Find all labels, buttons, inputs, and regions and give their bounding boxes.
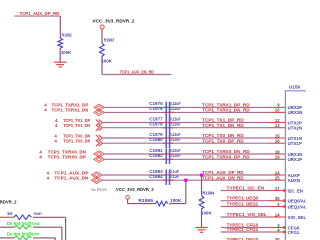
svg-text:4: 4	[39, 155, 42, 160]
page ref 4 for TCP1_TXRX1_DP	[44, 103, 47, 108]
capacitor C1975 / C1976	[166, 102, 171, 117]
wire TCP1_TX1_DP to cap C1977	[102, 122, 166, 124]
pin bubble 4	[283, 231, 286, 234]
pin name I2C_EN	[288, 188, 303, 193]
cap pin stubs right C1975/C1976	[170, 107, 173, 112]
wire TCP1_TXRX1_DP to cap C1975	[104, 106, 165, 108]
svg-text:TYPEC1_CFG1: TYPEC1_CFG1	[227, 227, 259, 232]
net label TCP1_TX1_DP	[63, 118, 90, 123]
svg-text:4: 4	[39, 149, 42, 154]
svg-text:TCP1_TXRX0_DP: TCP1_TXRX0_DP	[48, 155, 86, 160]
net label TCP1_TX1_DP_RD	[202, 118, 244, 123]
cap pin stubs right C1981/C1982	[170, 154, 173, 159]
svg-text:VIO_SEL: VIO_SEL	[288, 215, 306, 220]
capacitor C1979 / C1980	[166, 132, 171, 148]
annotation To PCH	[91, 187, 107, 192]
capacitor C1977 / C1978	[166, 117, 171, 133]
pin number 10	[275, 108, 280, 113]
net label TCP1_TXRX0_DN	[48, 149, 87, 154]
svg-text:TCP1_TXRX1_DN_RD: TCP1_TXRX1_DN_RD	[202, 108, 250, 113]
svg-text:TCP1_TX0_DP_RD: TCP1_TX0_DP_RD	[202, 138, 244, 143]
net label TCP1_TXRX0_DP	[48, 155, 86, 160]
page ref 4 for TCP1_TXRX0_DP	[39, 155, 42, 160]
wire left to R1997	[0, 216, 14, 218]
svg-text:35: 35	[275, 196, 280, 201]
svg-text:100K: 100K	[61, 50, 72, 55]
svg-text:TCP1_TXRX0_DP_RD: TCP1_TXRX0_DP_RD	[202, 154, 250, 159]
pin stub 16	[270, 142, 286, 144]
port symbol TCP1_TXRX0_DN	[94, 151, 105, 158]
ref C1978	[149, 122, 163, 127]
wire TCP1_TXRX0_DN to cap C1981	[104, 153, 165, 155]
svg-text:13: 13	[275, 123, 280, 128]
net label TCP1_AUX_DP	[54, 170, 88, 175]
pin stub 19	[270, 158, 286, 160]
pin number 2	[277, 202, 280, 207]
wire AUX_DP down to R1994	[201, 175, 203, 196]
net label TYPEC1_UEQ0	[227, 196, 259, 201]
svg-text:R1995: R1995	[138, 198, 153, 203]
net label TCP1_TX0_DP_RD	[202, 138, 244, 143]
pin name URX1N	[288, 152, 303, 157]
svg-text:VCC_3V3_RDVR_2: VCC_3V3_RDVR_2	[0, 200, 17, 205]
net label TCP1_TX1_DN	[63, 123, 91, 128]
value 100K of R1995	[170, 198, 182, 203]
net label TCP1_TXRX1_DN_RD	[202, 108, 250, 113]
value 100K of R1994	[201, 210, 212, 215]
port symbol TCP1_TX1_DN	[96, 125, 103, 131]
value 1K of R1997	[7, 211, 13, 216]
svg-text:4: 4	[54, 139, 57, 144]
capacitor C1981 / C1982	[166, 148, 171, 164]
wire R1983 down	[101, 58, 103, 75]
svg-text:TCP1_AUX_DN: TCP1_AUX_DN	[54, 176, 89, 181]
port symbol TCP1_TXRX1_DP	[94, 104, 105, 111]
pin stub 15	[270, 137, 286, 139]
svg-text:TCP1_TXRX0_DN: TCP1_TXRX0_DN	[48, 149, 87, 154]
pin name CFG0	[288, 225, 300, 230]
svg-text:TCP1_AUX_DN_RD: TCP1_AUX_DN_RD	[120, 70, 155, 75]
svg-text:C1980: C1980	[149, 137, 163, 142]
net label TCP1_TX0_DP	[63, 139, 90, 144]
junction dot on TCP1_AUX_DN	[184, 178, 188, 182]
net label TYPEC1_CFG1	[227, 227, 259, 232]
wire left to R2000	[0, 237, 14, 239]
pin number 25	[275, 176, 280, 181]
pin number 3	[277, 223, 280, 228]
op-amp U159 box	[285, 91, 310, 240]
junction dot on TCP1_AUX_DP	[200, 173, 204, 177]
wire VCC to R1983	[101, 29, 103, 43]
svg-text:TYPEC1_VIO_SEL: TYPEC1_VIO_SEL	[227, 212, 267, 217]
wire left to R1998	[0, 226, 14, 228]
power net VCC_3V3_RDVR_2 (left, clipped)	[0, 200, 17, 205]
port symbol TCP1_AUX_DN	[91, 177, 102, 184]
net label TCP1_AUX_DP_RD	[20, 11, 60, 16]
wire TYPEC1_CFG1	[221, 231, 270, 233]
wire R1982 to ground	[59, 49, 61, 62]
svg-text:4: 4	[44, 108, 47, 113]
svg-text:4: 4	[55, 123, 58, 128]
pin stub 14	[270, 216, 286, 218]
page ref 4 for TCP1_AUX_DN	[47, 176, 50, 181]
pin bubble 3	[283, 226, 286, 229]
ref C1979	[149, 132, 163, 137]
wire R1994 to ground	[201, 210, 203, 227]
svg-text:TCP1_TX0_DP: TCP1_TX0_DP	[63, 139, 90, 144]
port symbol TCP1_TX0_DP	[96, 140, 103, 146]
pin number 17	[275, 186, 280, 191]
wire R1997 down	[65, 217, 67, 240]
svg-text:VCC_3V3_RDVR_2: VCC_3V3_RDVR_2	[93, 19, 136, 24]
value 0.1uF of C1983	[170, 169, 179, 174]
resistor R1995	[138, 198, 167, 206]
page ref 4 for TCP1_TXRX1_DN	[44, 108, 47, 113]
pin name URX2P	[288, 105, 303, 110]
pin stub 17	[270, 190, 284, 192]
port symbol TCP1_TX0_DN	[96, 135, 103, 141]
wire TCP1_TXRX0_DP_RD row	[170, 158, 269, 160]
svg-text:URX1N: URX1N	[288, 152, 303, 157]
pin name AUXP	[288, 173, 300, 178]
pin stub 13	[270, 127, 286, 129]
wire TCP1_TX1_DN to cap C1978	[102, 127, 166, 129]
pin number 12	[275, 118, 280, 123]
cap pin stubs right C1977/C1978	[170, 123, 173, 128]
power symbol circle (bottom)	[126, 195, 130, 199]
ref C1983	[149, 169, 163, 174]
cap pin stubs C1983/C1984	[163, 175, 174, 180]
svg-text:0.22uF: 0.22uF	[170, 148, 181, 153]
wire R2000 right	[33, 237, 55, 239]
page ref 4 for TCP1_TX0_DN	[54, 133, 57, 138]
wire VCC to R1995	[128, 199, 156, 203]
net label TCP1_TXRX1_DN	[52, 108, 89, 113]
wire TCP1_AUX_DN to cap C1984	[102, 179, 166, 181]
svg-text:19: 19	[275, 155, 280, 160]
pin stub 35	[270, 200, 284, 202]
pin name VIO_SEL	[288, 215, 307, 220]
cap pin stubs C1981/C1982	[163, 154, 174, 159]
svg-text:R1997: R1997	[34, 211, 43, 216]
port symbol TCP1_TXRX1_DN	[94, 109, 105, 116]
wire TCP1_AUX_DN_RD row	[170, 179, 269, 181]
net label TYPEC1_DEG0 (clipped)	[227, 237, 259, 240]
net label TCP1_TX0_DN_RD	[202, 133, 244, 138]
wire TCP1_TX0_DN to cap C1979	[102, 137, 166, 139]
svg-text:TCP1_TXRX0_DN_RD: TCP1_TXRX0_DN_RD	[202, 149, 250, 154]
svg-text:100K: 100K	[170, 198, 182, 203]
ref C1982	[149, 153, 163, 158]
value 0.22uF of C1978	[170, 122, 181, 127]
annotation Do Not Stuff R2000	[7, 232, 40, 237]
port symbol TCP1_TXRX0_DP	[94, 156, 105, 163]
pin stub 2	[270, 206, 284, 208]
ref C1975	[149, 101, 163, 106]
net label TYPEC1_CFG0	[227, 222, 259, 227]
net label TCP1_TXRX0_DN_RD	[202, 149, 250, 154]
page ref 4 for TCP1_TX1_DP	[55, 118, 58, 123]
net label TCP1_TX0_DN	[63, 133, 91, 138]
pin bubble 35	[283, 199, 286, 202]
svg-text:R1998: R1998	[31, 221, 39, 226]
page ref 4 for TCP1_TX1_DN	[55, 123, 58, 128]
wire R1997 right	[33, 216, 66, 218]
ground for R1994	[195, 228, 207, 233]
svg-text:C1984: C1984	[149, 174, 163, 179]
svg-text:To PCH: To PCH	[91, 187, 107, 192]
svg-text:TCP1_TX1_DN_RD: TCP1_TX1_DN_RD	[202, 123, 244, 128]
pin bubble 17	[283, 189, 286, 192]
net label TCP1_TXRX1_DP	[52, 103, 89, 108]
svg-text:C1981: C1981	[149, 148, 163, 153]
port symbol TCP1_AUX_DP	[91, 172, 102, 179]
net label TCP1_AUX_DN	[54, 176, 89, 181]
port symbol TCP1_TX1_DP	[96, 120, 103, 126]
net label TCP1_AUX_DN_RD	[202, 175, 244, 180]
wire TCP1_TXRX1_DN to cap C1976	[104, 111, 165, 113]
svg-text:25: 25	[275, 176, 280, 181]
wire TYPEC1_I2C_EN	[221, 190, 270, 192]
wire AUX_DN down to R1995	[185, 180, 187, 203]
wire TCP1_TX0_DP to cap C1980	[102, 142, 166, 144]
power symbol circle (top)	[100, 25, 104, 29]
svg-text:R1994: R1994	[203, 191, 215, 196]
wire down to R1982	[59, 16, 61, 38]
wire TCP1_TX1_DP_RD row	[170, 122, 269, 124]
pin number 14	[275, 212, 280, 217]
wire TYPEC1_UEQ0	[221, 200, 270, 202]
pin stub 10	[270, 111, 286, 113]
ref C1976	[149, 106, 163, 111]
wire TCP1_TXRX1_DN_RD row	[170, 111, 269, 113]
net label TCP1_TXRX1_DP_RD	[202, 103, 250, 108]
svg-text:R1983: R1983	[104, 37, 115, 42]
ref U159	[289, 84, 300, 89]
svg-text:C1978: C1978	[149, 122, 163, 127]
ref C1977	[149, 116, 163, 121]
value 0.22uF of C1975	[170, 101, 181, 106]
wire TCP1_AUX_DP_RD row	[170, 174, 269, 176]
net label TCP1_AUX_DN_RD	[120, 70, 155, 75]
net label TCP1_TXRX0_DP_RD	[202, 154, 250, 159]
value 0.22uF of C1980	[170, 137, 181, 142]
pin number 4	[277, 227, 280, 232]
svg-text:TYPEC1_I2C_EN: TYPEC1_I2C_EN	[227, 185, 265, 190]
svg-text:TCP1_TXRX1_DN: TCP1_TXRX1_DN	[52, 108, 89, 113]
value 0.1uF of C1984	[170, 174, 179, 179]
wire TCP1_AUX_DP_RD horizontal	[14, 15, 60, 17]
value 0.22uF of C1982	[170, 153, 181, 158]
svg-text:C1976: C1976	[149, 106, 163, 111]
wire TCP1_TXRX0_DP to cap C1982	[104, 158, 165, 160]
svg-text:Do Not Stuff: Do Not Stuff	[7, 221, 32, 226]
pin name AUXN	[288, 178, 300, 183]
wire TCP1_TX1_DN_RD row	[170, 127, 269, 129]
wire TCP1_AUX_DP to cap C1983	[102, 174, 166, 176]
svg-text:100K: 100K	[201, 210, 212, 215]
pin name UTX1N	[288, 136, 302, 141]
svg-text:UTX2N: UTX2N	[288, 126, 302, 131]
cap pin stubs right C1983/C1984	[170, 175, 173, 180]
pin name UTX1P	[288, 141, 302, 146]
resistor R1994	[199, 191, 215, 211]
svg-text:14: 14	[275, 212, 280, 217]
svg-text:UEQ0/AU: UEQ0/AU	[288, 199, 306, 204]
wire TCP1_TX0_DN_RD row	[170, 137, 269, 139]
pin number 24	[275, 170, 280, 175]
wire R1998 right	[33, 226, 62, 228]
resistor R1997	[14, 211, 43, 219]
pin name UEQ1/AU	[288, 204, 308, 209]
svg-text:17: 17	[275, 186, 280, 191]
power net VCC_3V3_RDVR_2 (bottom)	[116, 187, 154, 192]
pin number 35	[275, 196, 280, 201]
ground	[54, 62, 66, 67]
pin stub 24	[270, 174, 286, 176]
pin name UTX2N	[288, 126, 302, 131]
ref C1984	[149, 174, 163, 179]
pin number 30 (clipped)	[275, 237, 280, 240]
resistor R1998 (DNS)	[14, 225, 31, 229]
pin name CFG1	[288, 230, 300, 235]
pin stub 18	[270, 153, 286, 155]
resistor R2000 (DNS)	[14, 236, 31, 240]
capacitor C1983 / C1984	[166, 169, 171, 185]
pin name UEQ0/AU	[288, 199, 308, 204]
svg-text:1K: 1K	[7, 211, 13, 216]
svg-text:AUXN: AUXN	[288, 178, 300, 183]
pin number 19	[275, 155, 280, 160]
svg-text:R1982: R1982	[62, 33, 73, 38]
pin stub 3	[270, 227, 284, 229]
value 0.22uF of C1976	[170, 106, 181, 111]
svg-text:VCC_3V3_RDVR_2: VCC_3V3_RDVR_2	[116, 187, 154, 192]
svg-text:18: 18	[275, 149, 280, 154]
pin name URX1P	[288, 157, 303, 162]
svg-text:R2000: R2000	[31, 232, 39, 237]
pin stub 25	[270, 179, 286, 181]
net label TYPEC1_UEQ1	[227, 201, 259, 206]
cap pin stubs C1979/C1980	[163, 138, 174, 143]
value 0.22uF of C1977	[170, 116, 181, 121]
svg-text:TCP1_AUX_DP_RD: TCP1_AUX_DP_RD	[20, 11, 60, 16]
svg-text:10: 10	[275, 108, 280, 113]
pin number 15	[275, 133, 280, 138]
page ref 4 for TCP1_TX0_DP	[54, 139, 57, 144]
pin stub 9	[270, 106, 286, 108]
pin name UTX2P	[288, 120, 302, 125]
svg-text:URX2N: URX2N	[288, 110, 303, 115]
wire TCP1_TXRX1_DP_RD row	[170, 106, 269, 108]
pin name URX2N	[288, 110, 303, 115]
svg-text:UTX1P: UTX1P	[288, 141, 302, 146]
svg-text:TCP1_TX1_DN: TCP1_TX1_DN	[63, 123, 91, 128]
svg-text:C1982: C1982	[149, 153, 163, 158]
wire TYPEC1_UEQ1	[221, 206, 270, 208]
svg-text:TYPEC1_UEQ1: TYPEC1_UEQ1	[227, 201, 259, 206]
net label TYPEC1_VIO_SEL	[227, 212, 267, 217]
svg-text:UEQ1/AU: UEQ1/AU	[288, 204, 306, 209]
resistor R1982	[58, 33, 72, 50]
svg-text:100K: 100K	[102, 58, 113, 63]
wire right to TCP1_AUX_DN_RD	[102, 74, 171, 76]
pin number 9	[277, 103, 280, 108]
power net VCC_3V3_RDVR_2 (top)	[93, 19, 136, 24]
pin bubble 2	[283, 205, 286, 208]
svg-text:16: 16	[275, 139, 280, 144]
wire R1998 down	[61, 227, 63, 240]
ref C1980	[149, 137, 163, 142]
wire TCP1_TX0_DP_RD row	[170, 142, 269, 144]
wire R2000 down	[54, 238, 56, 240]
value 100K of R1982	[61, 50, 72, 55]
wire TCP1_TXRX0_DN_RD row	[170, 153, 269, 155]
resistor R1983	[100, 37, 115, 57]
wire TYPEC1_CFG0	[221, 227, 270, 229]
pin stub 12	[270, 122, 286, 124]
svg-text:URX1P: URX1P	[288, 157, 303, 162]
pin number 16	[275, 139, 280, 144]
ref C1981	[149, 148, 163, 153]
page ref 4 for TCP1_TXRX0_DN	[39, 149, 42, 154]
net label TCP1_AUX_DP_RD	[202, 170, 244, 175]
cap pin stubs C1975/C1976	[163, 107, 174, 112]
wire TYPEC1_VIO_SEL	[221, 216, 270, 218]
svg-text:Do Not Stuff: Do Not Stuff	[7, 232, 32, 237]
wire R1995 right segment	[169, 203, 186, 205]
annotation Do Not Stuff R1998	[7, 221, 40, 226]
svg-text:CFG1: CFG1	[288, 230, 300, 235]
net label TYPEC1_I2C_EN	[227, 185, 265, 190]
page ref 4 for TCP1_AUX_DP	[47, 170, 50, 175]
net label TCP1_TX1_DN_RD	[202, 123, 244, 128]
pin number 18	[275, 149, 280, 154]
svg-text:U159: U159	[289, 84, 300, 89]
pin number 13	[275, 123, 280, 128]
pin stub 4	[270, 231, 284, 233]
value 0.22uF of C1981	[170, 148, 181, 153]
value 0.22uF of C1979	[170, 132, 181, 137]
svg-text:TYPEC1_UEQ0: TYPEC1_UEQ0	[227, 196, 259, 201]
svg-text:4: 4	[47, 176, 50, 181]
cap pin stubs C1977/C1978	[163, 123, 174, 128]
svg-text:TCP1_AUX_DN_RD: TCP1_AUX_DN_RD	[202, 175, 244, 180]
cap pin stubs right C1979/C1980	[170, 138, 173, 143]
svg-text:I2C_EN: I2C_EN	[288, 188, 303, 193]
value 100K of R1983	[102, 58, 113, 63]
